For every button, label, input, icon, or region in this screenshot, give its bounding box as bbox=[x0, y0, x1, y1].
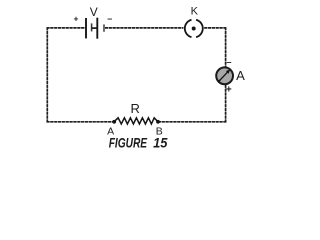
svg-text:A: A bbox=[236, 68, 245, 83]
battery V cell-2 long plate (+) bbox=[96, 18, 98, 39]
wire top-left horizontal (battery + to left corner) bbox=[47, 27, 86, 29]
svg-text:–: – bbox=[226, 57, 231, 67]
wire bottom-left horizontal (left corner to node A) bbox=[47, 121, 115, 123]
battery V cell-1 short plate (-) bbox=[91, 23, 93, 31]
key K right arc bbox=[196, 20, 203, 37]
ammeter A body bbox=[216, 67, 233, 84]
wire right vertical bbox=[225, 27, 227, 123]
node A junction dot bbox=[112, 120, 116, 124]
svg-text:15: 15 bbox=[153, 134, 167, 150]
node B junction dot bbox=[156, 120, 160, 124]
resistor R zigzag bbox=[114, 118, 158, 124]
ammeter needle arrowhead bbox=[226, 70, 230, 74]
svg-text:FIGURE: FIGURE bbox=[109, 134, 148, 150]
svg-text:V: V bbox=[90, 5, 98, 19]
wire top-right horizontal (key K to top-right corner) bbox=[204, 27, 226, 29]
battery V cell-2 short plate (-) bbox=[103, 24, 105, 31]
key K left arc bbox=[185, 20, 192, 37]
svg-text:+: + bbox=[74, 14, 79, 24]
battery V cell-1 long plate (+) bbox=[85, 18, 87, 38]
wire top-middle horizontal (battery - to key K) bbox=[105, 27, 183, 29]
wire bottom-right horizontal (node B to right corner) bbox=[158, 121, 226, 123]
battery inter-cell connector wire bbox=[92, 27, 97, 29]
svg-text:–: – bbox=[107, 13, 112, 23]
svg-text:+: + bbox=[226, 85, 232, 96]
key K contact dot bbox=[192, 27, 196, 31]
ammeter needle bbox=[219, 72, 227, 81]
svg-text:R: R bbox=[131, 101, 140, 116]
ammeter pivot dot bbox=[218, 80, 220, 82]
wire left vertical bbox=[46, 27, 48, 123]
svg-text:K: K bbox=[191, 6, 199, 18]
